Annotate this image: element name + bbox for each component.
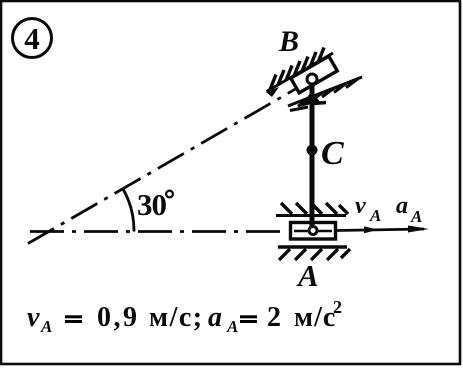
arrowhead vA <box>364 226 378 233</box>
slider block at B (rotated rectangle) <box>291 56 338 93</box>
velocity/acceleration arrow line <box>336 229 424 231</box>
formula line <box>27 297 342 336</box>
svg-text:м/с: м/с <box>294 302 336 333</box>
svg-text:a: a <box>396 193 408 219</box>
hatching below lower rail at B <box>298 79 358 107</box>
svg-text:м/с;: м/с; <box>149 302 204 333</box>
svg-text:0,9: 0,9 <box>97 302 140 333</box>
svg-text:a: a <box>208 302 222 333</box>
slider block at A <box>291 223 336 240</box>
hatching above upper rail at B <box>270 48 324 90</box>
angle arc 30deg <box>123 188 135 232</box>
upper guide line at A <box>276 214 346 217</box>
wedge under pin at B <box>299 91 320 107</box>
arrowhead aA <box>408 226 429 233</box>
svg-text:B: B <box>278 25 299 58</box>
svg-text:2: 2 <box>267 302 281 333</box>
svg-text:v: v <box>355 193 366 219</box>
hatching above upper guide at A <box>281 203 348 214</box>
point C dot <box>307 145 318 156</box>
svg-text:A: A <box>369 206 381 225</box>
rod AB <box>310 80 315 231</box>
circled task number 4 <box>13 19 52 58</box>
inclined guide lower rail at B <box>288 77 362 106</box>
inclined dash-dot centerline at 30 deg <box>28 89 296 244</box>
pin at A <box>309 227 317 235</box>
svg-text:30: 30 <box>137 187 167 222</box>
short stroke under wedge <box>290 107 308 111</box>
svg-text:C: C <box>321 135 344 172</box>
svg-text:A: A <box>296 258 319 293</box>
svg-text:A: A <box>410 207 422 226</box>
svg-text:v: v <box>27 302 40 333</box>
arrow flare at lower end of upper rail <box>266 87 279 97</box>
svg-text:A: A <box>40 317 52 336</box>
svg-text:4: 4 <box>24 21 40 56</box>
svg-text:A: A <box>226 317 238 336</box>
horizontal dash-dot centerline <box>30 230 288 233</box>
hatching below lower guide at A <box>279 249 350 260</box>
inclined guide upper rail at B <box>267 53 334 92</box>
centerline inside slider A <box>294 230 332 232</box>
svg-text:2: 2 <box>333 297 342 317</box>
lower guide line at A <box>278 245 347 248</box>
pin at B <box>307 74 317 84</box>
short stroke right of wedge <box>313 103 326 104</box>
